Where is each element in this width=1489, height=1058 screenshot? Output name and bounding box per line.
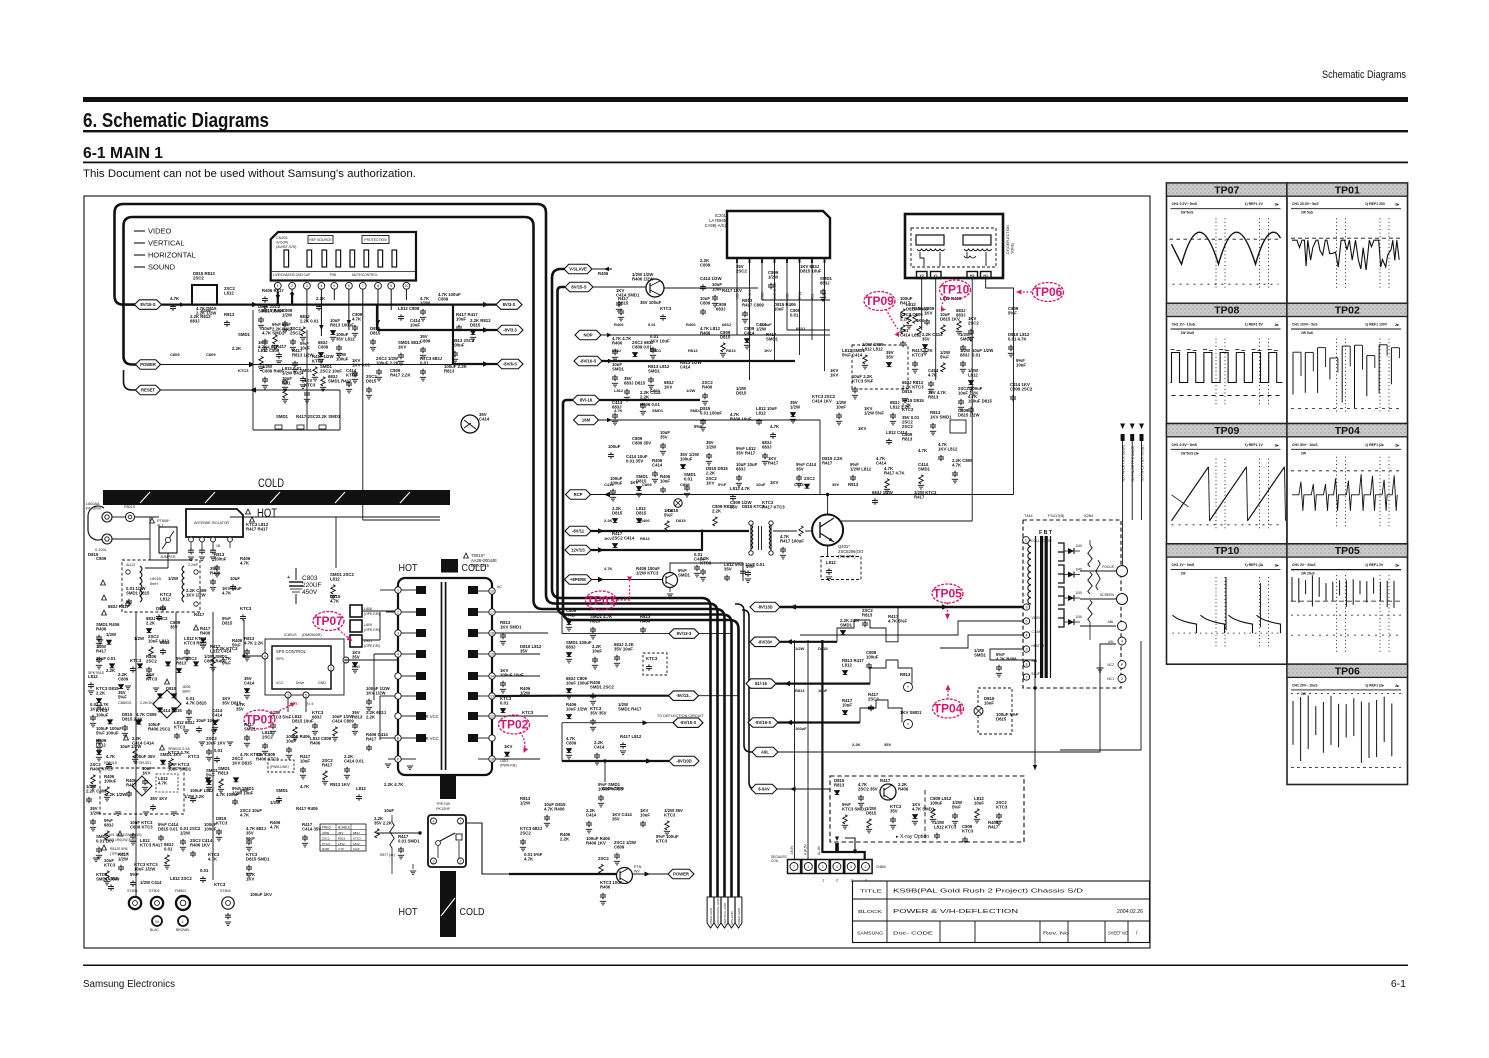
- svg-text:D815: D815: [818, 646, 828, 651]
- svg-text:4: 4: [320, 284, 322, 288]
- svg-text:4.7K C809: 4.7K C809: [136, 712, 157, 717]
- svg-text:CB801S: CB801S: [118, 701, 132, 705]
- svg-text:D815: D815: [366, 378, 377, 383]
- svg-text:7: 7: [362, 284, 364, 288]
- svg-text:RESET: RESET: [141, 388, 155, 393]
- svg-text:C414: C414: [680, 364, 691, 369]
- dashed box small mid: [643, 653, 667, 675]
- svg-text:1KV: 1KV: [924, 310, 932, 315]
- svg-text:R406 R417: R406 R417: [262, 288, 284, 293]
- svg-text:1KV: 1KV: [504, 744, 512, 749]
- svg-text:2: 2: [291, 284, 293, 288]
- svg-text:L800AA: L800AA: [86, 502, 100, 506]
- svg-text:1KV: 1KV: [630, 480, 638, 485]
- node V-SLAVE: [564, 264, 592, 274]
- svg-text:8V/3-S: 8V/3-S: [503, 302, 516, 307]
- svg-text:D815 0.01: D815 0.01: [158, 826, 178, 831]
- svg-text:100uF: 100uF: [452, 342, 465, 347]
- FBT collector pin: [1023, 537, 1030, 544]
- left rail wires: [135, 612, 137, 900]
- svg-text:SMD1: SMD1: [678, 572, 691, 577]
- svg-text:2.2K: 2.2K: [232, 346, 242, 351]
- T801 winding wires: [401, 589, 416, 591]
- transistor Q202: [646, 279, 664, 297]
- svg-text:S/CON: S/CON: [276, 241, 288, 245]
- svg-text:220UF: 220UF: [302, 582, 322, 589]
- svg-text:1/2W: 1/2W: [768, 274, 779, 279]
- svg-text:1B: 1B: [216, 544, 221, 548]
- title block row3 dividers: [939, 921, 941, 943]
- svg-text:4.7K: 4.7K: [240, 812, 250, 817]
- svg-text:R813: R813: [900, 672, 911, 677]
- svg-text:POWER: POWER: [673, 872, 689, 877]
- wire 8V branch vertical: [376, 305, 378, 330]
- svg-text:D815: D815: [352, 665, 360, 669]
- svg-text:KTC3: KTC3: [660, 306, 672, 311]
- svg-text:KTC3: KTC3: [353, 836, 361, 840]
- svg-text:1KV 1/2W: 1KV 1/2W: [186, 592, 207, 597]
- svg-text:SMD1: SMD1: [238, 332, 251, 337]
- svg-text:8V/15-S: 8V/15-S: [571, 285, 586, 290]
- wire V-SLAVE right: [592, 268, 612, 270]
- wire bus outer loop: [115, 204, 718, 897]
- svg-text:▸ X-ray Option: ▸ X-ray Option: [896, 834, 929, 840]
- waveform panel TP01 SMPS drive: [1287, 183, 1408, 303]
- svg-text:FM801: FM801: [175, 889, 186, 893]
- svg-text:R417: R417: [566, 612, 577, 617]
- svg-text:SMD1 R417: SMD1 R417: [618, 706, 642, 711]
- wire NOP right: [601, 334, 830, 336]
- svg-text:TP09: TP09: [865, 294, 894, 308]
- svg-text:KTC3 SMD1: KTC3 SMD1: [842, 806, 867, 811]
- svg-text:SMD1: SMD1: [974, 652, 987, 657]
- FBT focus pin: [1080, 570, 1116, 572]
- center extra components: [706, 440, 717, 465]
- svg-text:TO PIN-CRT R.K Out(R): TO PIN-CRT R.K Out(R): [1121, 445, 1125, 482]
- svg-text:10uF: 10uF: [592, 648, 602, 653]
- T801 right pins: [489, 588, 495, 594]
- svg-text:683J: 683J: [312, 714, 322, 719]
- svg-text:100uF: 100uF: [795, 726, 807, 731]
- svg-text:P5B: P5B: [330, 273, 336, 277]
- svg-text:380V: 380V: [182, 690, 191, 694]
- svg-text:1KV: 1KV: [664, 384, 672, 389]
- T801 ground: [407, 766, 413, 770]
- waveform panel TP07 vertical output: [1167, 183, 1288, 303]
- wire bus line 5: [563, 400, 739, 897]
- svg-text:7: 7: [1026, 675, 1028, 679]
- bottom safety resistor cluster: [104, 858, 116, 885]
- step wires deflection: [837, 607, 898, 642]
- svg-text:C809: C809: [566, 740, 577, 745]
- svg-text:C809: C809: [438, 296, 449, 301]
- svg-text:1KV 1/2W: 1KV 1/2W: [366, 690, 387, 695]
- svg-text:1) REF1 5V: 1) REF1 5V: [1245, 323, 1264, 327]
- svg-text:D815 10uF: D815 10uF: [292, 718, 314, 723]
- svg-text:C414: C414: [244, 680, 255, 685]
- svg-text:0.01: 0.01: [214, 748, 223, 753]
- wire A9L riser: [735, 604, 754, 752]
- svg-text:SPS-GND: SPS-GND: [730, 910, 734, 925]
- svg-text:C414: C414: [479, 416, 490, 421]
- driver transformer T402: [751, 523, 771, 553]
- svg-text:KTC3 5%F: KTC3 5%F: [852, 378, 874, 383]
- warning triangle antenna: [246, 509, 251, 514]
- svg-text:4.7K: 4.7K: [222, 590, 232, 595]
- FBT feed step wire: [800, 621, 1023, 635]
- svg-text:35V: 35V: [884, 742, 891, 747]
- svg-text:35V: 35V: [352, 654, 360, 659]
- svg-text:1KV: 1KV: [246, 876, 254, 881]
- svg-text:14: 14: [490, 674, 494, 678]
- svg-text:10uF: 10uF: [410, 322, 420, 327]
- svg-text:EER4245: EER4245: [471, 563, 490, 568]
- svg-text:1) REF1 2V: 1) REF1 2V: [1365, 563, 1384, 567]
- legend line vertical: [134, 242, 145, 244]
- svg-text:5%F: 5%F: [694, 424, 703, 429]
- svg-text:TP22: TP22: [798, 291, 802, 300]
- svg-text:C809 R406: C809 R406: [262, 368, 284, 373]
- wire -8V/10D: [562, 760, 669, 762]
- svg-text:TO PIN-CRT B.K Out(B): TO PIN-CRT B.K Out(B): [1140, 445, 1144, 482]
- svg-text:2SC2: 2SC2: [902, 424, 913, 429]
- AC power inlet: [88, 506, 104, 540]
- resistor trio bottom: [276, 414, 289, 419]
- svg-text:2.2K 4.7K: 2.2K 4.7K: [384, 782, 404, 787]
- svg-text:KTC3: KTC3: [104, 862, 116, 867]
- IC IC201 LA76945: [727, 211, 830, 258]
- svg-text:R417: R417: [914, 494, 925, 499]
- wire -8V/15-S: [562, 722, 673, 724]
- connector DY deflection yoke: [905, 214, 1003, 278]
- FBT screen pin: [1080, 598, 1116, 600]
- wire 16M vertical drop: [819, 420, 821, 495]
- transistor Q402: [663, 573, 678, 588]
- svg-text:1/2W: 1/2W: [106, 632, 117, 637]
- svg-text:1KV: 1KV: [858, 426, 866, 431]
- svg-text:1) REF1 1V: 1) REF1 1V: [1245, 443, 1264, 447]
- vertical small box L407: [950, 420, 966, 433]
- node -8V/11: [565, 526, 591, 536]
- svg-text:L812: L812: [338, 842, 345, 846]
- svg-text:-8V/13D: -8V/13D: [757, 605, 772, 610]
- svg-text:5mH: 5mH: [150, 582, 158, 586]
- svg-text:Y1: Y1: [933, 274, 937, 278]
- svg-text:CA99(-A/S): CA99(-A/S): [705, 223, 727, 228]
- svg-text:2.2K KTC3: 2.2K KTC3: [216, 646, 238, 651]
- svg-text:KTC3: KTC3: [214, 882, 226, 887]
- svg-text:HOT: HOT: [399, 907, 418, 918]
- svg-text:10uF: 10uF: [300, 758, 310, 763]
- yoke coil V: [916, 235, 944, 245]
- svg-text:SMD1: SMD1: [648, 368, 661, 373]
- svg-text:F B T: F B T: [1039, 530, 1053, 536]
- svg-text:L812 R406: L812 R406: [940, 296, 962, 301]
- svg-text:L812 4.7K: L812 4.7K: [730, 486, 751, 491]
- SPS pins: [262, 653, 268, 659]
- svg-text:2: 2: [330, 666, 332, 670]
- svg-text:BROWN: BROWN: [176, 928, 190, 932]
- svg-text:35V: 35V: [796, 466, 804, 471]
- svg-text:10uF: 10uF: [640, 812, 650, 817]
- legend line sound: [134, 266, 145, 268]
- left power final clusters: [106, 632, 117, 644]
- photo lamp dashed box: [978, 688, 1012, 734]
- svg-text:1KV: 1KV: [604, 536, 612, 541]
- svg-text:SMD1 D815: SMD1 D815: [126, 590, 150, 595]
- svg-text:D815 10uF: D815 10uF: [800, 268, 822, 273]
- svg-text:4: 4: [1026, 633, 1028, 637]
- IC201 bottom pin ticks: [736, 258, 738, 263]
- svg-text:100uF: 100uF: [608, 444, 621, 449]
- svg-text:2SC2: 2SC2: [146, 658, 157, 663]
- svg-text:0.01 1KV: 0.01 1KV: [96, 838, 114, 843]
- svg-text:1) REF1 2V: 1) REF1 2V: [1245, 202, 1264, 206]
- wire vertical to -8V/6: [452, 305, 454, 364]
- svg-text:2: 2: [460, 859, 462, 863]
- svg-text:450V: 450V: [302, 589, 318, 596]
- svg-text:10uF 1/2W: 10uF 1/2W: [134, 866, 156, 871]
- svg-text:C809: C809: [206, 352, 216, 357]
- svg-text:SCREEN: SCREEN: [1100, 593, 1115, 597]
- svg-text:TO PIN-CRT F.K Out(G): TO PIN-CRT F.K Out(G): [1131, 446, 1135, 482]
- svg-text:L8D3: L8D3: [500, 759, 508, 763]
- svg-text:100uF 1KV: 100uF 1KV: [250, 892, 272, 897]
- svg-text:2SC2: 2SC2: [520, 830, 531, 835]
- svg-text:Drive: Drive: [296, 681, 304, 685]
- X-ray transistor: [880, 784, 896, 800]
- svg-text:0.01 35V: 0.01 35V: [626, 458, 643, 463]
- test point TP01 callout: [244, 710, 275, 729]
- svg-text:+: +: [287, 575, 290, 581]
- svg-text:SMD1: SMD1: [766, 336, 779, 341]
- waveform panel TP09 V ramp: [1167, 424, 1288, 544]
- connector CN201 block: [271, 232, 416, 281]
- svg-text:100uF 35V: 100uF 35V: [134, 754, 155, 759]
- svg-text:2SC2: 2SC2: [968, 320, 979, 325]
- svg-text:35V: 35V: [890, 808, 898, 813]
- svg-text:15: 15: [490, 652, 494, 656]
- wire -8V/33: [780, 641, 837, 643]
- svg-text:1W 10uS: 1W 10uS: [1181, 331, 1196, 335]
- svg-text:TITLE: TITLE: [860, 889, 882, 894]
- svg-text:0.01: 0.01: [648, 322, 657, 327]
- IC201 pin wires: [736, 258, 738, 335]
- wire -8V/6-S run: [453, 363, 497, 365]
- svg-text:100uF: 100uF: [104, 778, 117, 783]
- svg-text:35V D815: 35V D815: [222, 700, 242, 705]
- svg-text:R813: R813: [176, 660, 187, 665]
- svg-text:KTC3: KTC3: [962, 828, 974, 833]
- resistor cluster row2: [282, 366, 304, 391]
- under bundle clusters: [586, 808, 597, 833]
- svg-text:0.01 SMD1: 0.01 SMD1: [398, 838, 420, 843]
- svg-text:C414: C414: [694, 556, 705, 561]
- svg-text:L812: L812: [614, 388, 624, 393]
- svg-text:10uF: 10uF: [984, 700, 994, 705]
- svg-text:R813: R813: [795, 688, 805, 693]
- wire 8V/15 extension: [664, 287, 758, 289]
- heading rule: [83, 130, 1408, 132]
- svg-text:10uF 100uF: 10uF 100uF: [196, 718, 220, 723]
- svg-text:Doc- CODE: Doc- CODE: [893, 931, 933, 937]
- svg-text:1/2W: 1/2W: [520, 690, 531, 695]
- svg-text:NC2: NC2: [1107, 663, 1114, 667]
- transistor Q401 H-OUT: [812, 515, 843, 546]
- svg-text:C-LIM: C-LIM: [1032, 630, 1041, 634]
- svg-text:R810S 10K(1/2W-5%1S): R810S 10K(1/2W-5%1S): [104, 833, 142, 837]
- svg-text:(AV/BT-S/S): (AV/BT-S/S): [276, 245, 297, 249]
- svg-text:SMD1: SMD1: [690, 408, 702, 413]
- svg-text:SMD1: SMD1: [276, 414, 289, 419]
- svg-text:R813: R813: [726, 348, 736, 353]
- svg-text:0.01: 0.01: [200, 868, 209, 873]
- node 16M: [574, 415, 599, 425]
- svg-text:100uF: 100uF: [930, 800, 943, 805]
- svg-text:4: 4: [836, 865, 838, 869]
- transistor Q201: [461, 415, 479, 433]
- svg-text:0.01: 0.01: [164, 846, 173, 851]
- svg-text:10uF: 10uF: [818, 688, 828, 693]
- svg-text:683J: 683J: [160, 640, 170, 645]
- svg-text:R813: R813: [640, 536, 650, 541]
- svg-text:H2: H2: [970, 274, 975, 278]
- svg-text:SSR VCC: SSR VCC: [420, 736, 439, 741]
- svg-text:VIDEO-GND: VIDEO-GND: [737, 907, 741, 925]
- test point TP10 callout: [940, 280, 971, 299]
- bridge rectifier cluster: [146, 616, 168, 633]
- svg-text:L812: L812: [842, 662, 852, 667]
- svg-text:VERTICAL-GND: VERTICAL-GND: [723, 902, 727, 925]
- svg-text:TP07: TP07: [314, 614, 343, 628]
- svg-text:C809 35V: C809 35V: [632, 440, 651, 445]
- svg-text:CH1 20.5V~ 5uS: CH1 20.5V~ 5uS: [1292, 202, 1319, 206]
- svg-text:L812: L812: [356, 786, 366, 791]
- svg-text:100uF: 100uF: [866, 654, 879, 659]
- svg-text:2.2K: 2.2K: [852, 742, 861, 747]
- svg-text:4.7K R406: 4.7K R406: [996, 656, 1017, 661]
- node -8V/16-S: [574, 356, 602, 366]
- ground symbols row left: [97, 640, 103, 644]
- svg-text:R406: R406: [600, 884, 611, 889]
- svg-text:R406 1/2W: R406 1/2W: [632, 276, 654, 281]
- svg-text:KTC3: KTC3: [174, 724, 186, 729]
- svg-text:R417 C809: R417 C809: [742, 302, 764, 307]
- svg-text:100uF D815: 100uF D815: [968, 398, 992, 403]
- svg-text:POWER: POWER: [140, 362, 156, 367]
- svg-text:D46: D46: [1076, 615, 1082, 619]
- svg-text:TP10: TP10: [941, 283, 970, 297]
- svg-text:L812: L812: [826, 560, 836, 565]
- svg-text:10uF: 10uF: [286, 738, 296, 743]
- svg-text:100uF 10uF: 100uF 10uF: [500, 672, 524, 677]
- FBT left pin column: [1023, 604, 1029, 610]
- svg-text:2SC2 10uF: 2SC2 10uF: [320, 368, 342, 373]
- svg-text:TP04: TP04: [1335, 425, 1360, 437]
- svg-text:FS417(B): FS417(B): [1048, 514, 1065, 518]
- svg-text:D815: D815: [902, 389, 913, 394]
- svg-text:D815: D815: [618, 300, 629, 305]
- svg-text:CH1 100V~ 5uS: CH1 100V~ 5uS: [1292, 323, 1318, 327]
- svg-text:35V 10uF: 35V 10uF: [614, 646, 633, 651]
- wire H2 link: [830, 520, 972, 522]
- switcher snubber dashed box: [100, 768, 184, 814]
- svg-text:C414: C414: [652, 462, 663, 467]
- svg-text:1/2W: 1/2W: [756, 326, 767, 331]
- isolation bar COLD horizontal: [103, 490, 450, 505]
- svg-text:R406: R406: [612, 340, 623, 345]
- svg-text:35V: 35V: [922, 336, 930, 341]
- degauss PTC wires: [112, 516, 126, 518]
- svg-text:FIL-3000: FIL-3000: [86, 507, 101, 511]
- svg-text:5%F: 5%F: [746, 564, 755, 569]
- svg-text:CH1 0.5V~ 5mS: CH1 0.5V~ 5mS: [1172, 443, 1198, 447]
- svg-text:10uF: 10uF: [842, 702, 852, 707]
- relay left resistor: [390, 822, 394, 848]
- FBT core bars: [1040, 536, 1043, 678]
- connector CN806 degauss: [788, 860, 801, 874]
- svg-text:L812: L812: [108, 876, 118, 881]
- svg-text:TP05: TP05: [933, 587, 962, 601]
- warning triangle PTC: [150, 518, 155, 523]
- wire 8V/13-3: [562, 633, 669, 635]
- svg-text:2SC2: 2SC2: [322, 836, 330, 840]
- svg-text:0.01 4.7K: 0.01 4.7K: [1008, 336, 1028, 341]
- wire POWER run: [161, 364, 454, 366]
- mid area component clusters: [612, 336, 632, 361]
- svg-text:IC801S: IC801S: [284, 633, 297, 637]
- svg-text:35V: 35V: [236, 706, 244, 711]
- svg-text:R417: R417: [822, 460, 833, 465]
- T801 surrounding clusters: [366, 686, 391, 711]
- svg-text:C414 35V: C414 35V: [302, 826, 321, 831]
- svg-text:R406 1KV: R406 1KV: [586, 840, 606, 845]
- svg-text:10uF: 10uF: [836, 404, 846, 409]
- yoke wiring: [920, 252, 986, 266]
- svg-text:683J: 683J: [190, 318, 200, 323]
- node A9L right-facing: [752, 747, 778, 757]
- component cluster under CN201: [282, 308, 293, 333]
- svg-text:1/2W: 1/2W: [282, 312, 293, 317]
- svg-text:1KV 10uF: 1KV 10uF: [650, 338, 670, 343]
- svg-text:100uF: 100uF: [96, 712, 109, 717]
- SPS wires: [245, 655, 262, 657]
- svg-text:-8V/16-S: -8V/16-S: [755, 720, 772, 725]
- node NOP: [575, 330, 601, 340]
- svg-text:R417: R417: [194, 612, 205, 617]
- svg-text:(PWR-F/B): (PWR-F/B): [500, 764, 517, 768]
- T801 core lines: [441, 582, 443, 770]
- wire +8PERE: [592, 579, 664, 581]
- svg-text:5%F 100uF: 5%F 100uF: [96, 730, 119, 735]
- svg-text:100uF: 100uF: [336, 356, 349, 361]
- svg-text:KTC3: KTC3: [322, 842, 330, 846]
- svg-text:2SC2: 2SC2: [290, 330, 301, 335]
- snubber cluster left: [96, 622, 120, 647]
- svg-text:9: 9: [1026, 605, 1028, 609]
- svg-text:AU13: AU13: [126, 563, 135, 567]
- svg-text:1/2W: 1/2W: [790, 404, 801, 409]
- svg-text:100uF 2.2K: 100uF 2.2K: [376, 360, 400, 365]
- svg-text:C809: C809: [170, 352, 180, 357]
- terminal ST801: [129, 897, 141, 909]
- svg-text:C809: C809: [700, 262, 711, 267]
- svg-text:1/2W: 1/2W: [686, 388, 696, 393]
- svg-text:Y2: Y2: [919, 274, 923, 278]
- svg-text:100uF: 100uF: [680, 456, 693, 461]
- svg-text:JD08: JD08: [182, 685, 190, 689]
- left column extra components: [184, 636, 207, 661]
